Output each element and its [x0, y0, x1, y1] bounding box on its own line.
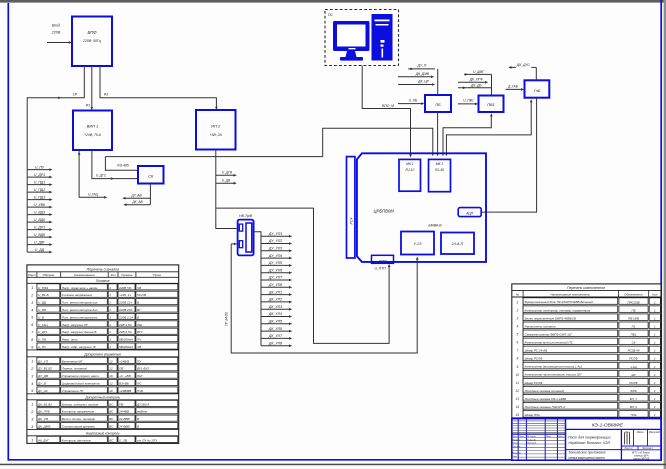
svg-text:Исходные газовая основной: Исходные газовая основной [525, 389, 565, 393]
svg-text:U_ВДб: U_ВДб [34, 233, 46, 237]
svg-text:ПВ: ПВ [119, 367, 123, 371]
net ДУ_УП4 output [261, 254, 292, 260]
table row: signal U_ПФ1 [31, 284, 178, 290]
table: signal list (перечень сигналов) [27, 265, 179, 444]
svg-text:1: 1 [31, 286, 33, 290]
table: component list (перечень компонентов) [512, 284, 661, 418]
svg-text:+5В; 2А: +5В; 2А [210, 133, 223, 137]
table row: signal U_ДГ1 [31, 328, 178, 334]
svg-text:Обозначение: Обозначение [624, 293, 643, 297]
svg-text:ДК_УП6: ДК_УП6 [268, 327, 282, 331]
table row: component 14 [516, 403, 661, 410]
svg-text:32Г: 32Г [631, 373, 636, 377]
svg-text:Перекл. основной: Перекл. основной [62, 367, 88, 371]
svg-text:от ПУ до 1ПУ: от ПУ до 1ПУ [137, 438, 158, 442]
svg-text:2: 2 [516, 308, 519, 312]
svg-text:ПчВ: ПчВ [137, 389, 143, 393]
svg-text:Уровень: Уровень [121, 273, 133, 277]
svg-text:ПВ1: ПВ1 [631, 333, 637, 337]
svg-text:5: 5 [517, 333, 519, 337]
block BPF (mains filter) 220V 50Hz [72, 17, 112, 67]
svg-text:ДУ_АВ: ДУ_АВ [130, 193, 142, 197]
svg-text:Техническое приложение: Техническое приложение [568, 451, 606, 455]
svg-text:ДУ1В2/3: ДУ1В2/3 [136, 402, 149, 406]
svg-text:Дискретное управление: Дискретное управление [83, 352, 121, 356]
input 220V arrow [47, 24, 72, 44]
svg-text:ДУ_УП8: ДУ_УП8 [268, 283, 282, 287]
svg-text:Шкаф РС 24-АВ: Шкаф РС 24-АВ [525, 349, 548, 353]
table row: component 7 [517, 346, 661, 353]
net ДК_УП3 output [261, 305, 292, 311]
svg-text:Павлов И.: Павлов И. [527, 443, 537, 445]
table row: component 12 [516, 386, 661, 393]
svg-text:ДК_ЦР: ДК_ЦР [417, 80, 429, 84]
table row: signal U_В [31, 313, 178, 319]
svg-text:Контроллер вычислительный ПС: Контроллер вычислительный ПС [525, 341, 574, 345]
svg-text:3: 3 [31, 374, 33, 378]
table row: component 1 [517, 298, 661, 305]
svg-text:220В 12ч: 220В 12ч [118, 301, 132, 305]
svg-text:Контроллер двигающегося насоса: Контроллер двигающегося насоса 1 АЦ [525, 365, 583, 369]
svg-text:U_ПБ: U_ПБ [38, 338, 46, 342]
svg-text:U_ВД0: U_ВД0 [34, 218, 45, 222]
svg-text:ДК_В1.В2: ДК_В1.В2 [37, 402, 52, 406]
table row: signal U_ВП [31, 306, 178, 312]
connector MK1 RJ-12 [399, 159, 421, 191]
svg-text:Перечень сигналов: Перечень сигналов [87, 267, 120, 271]
svg-text:РСЛФ: РСЛФ [629, 357, 638, 361]
table row: signal U_ГАЦ [31, 321, 178, 327]
wire RS-485 bus from SK area to MK2 [105, 156, 322, 158]
svg-text:Включение МГ: Включение МГ [62, 359, 83, 363]
table section: дискретное управление [27, 349, 179, 351]
svg-text:№ докум.: № докум. [527, 435, 537, 438]
block VIP1 +24V 75A [73, 111, 112, 151]
svg-text:U_ПВ1: U_ПВ1 [463, 99, 474, 103]
svg-text:Ф1: Ф1 [86, 104, 91, 108]
net U_PB arrow [398, 98, 424, 105]
svg-text:U_В1.В: U_В1.В [38, 293, 49, 297]
svg-text:Лит.: Лит. [624, 432, 631, 434]
net U_ДД output arrow [27, 248, 52, 254]
net U_ДР1 output arrow [27, 173, 52, 179]
svg-text:1Ф: 1Ф [73, 93, 78, 97]
svg-text:ДУ_В: ДУ_В [37, 382, 46, 386]
svg-text:схема замещения масел: схема замещения масел [568, 456, 605, 460]
svg-text:СК: СК [148, 174, 154, 178]
connector MK2 RJ-45 [429, 159, 451, 191]
svg-text:У-23: У-23 [414, 242, 423, 246]
svg-text:12: 12 [109, 367, 113, 371]
svg-text:5В/200мА: 5В/200мА [119, 338, 133, 342]
module 24-A-P [441, 233, 474, 255]
block SK [138, 166, 164, 184]
svg-text:U_ДГВ: U_ДГВ [222, 171, 233, 175]
svg-text:1 АЦ: 1 АЦ [630, 365, 637, 369]
svg-text:Контроль датчиков: Контроль датчиков [62, 438, 91, 442]
svg-text:+24В/ВВ: +24В/ВВ [119, 389, 131, 393]
svg-text:Пит. вентиляторов рез.: Пит. вентиляторов рез. [62, 315, 98, 319]
svg-text:Функциональный блок ПК-220/РУС: Функциональный блок ПК-220/РУСЕВВ-Вольны… [525, 300, 594, 304]
svg-text:1: 1 [31, 403, 33, 407]
svg-text:Вход: Вход [52, 24, 60, 28]
block PV1 [479, 96, 504, 113]
svg-text:ВГТУ и В Технол.: ВГТУ и В Технол. [632, 453, 651, 455]
svg-text:П1: П1 [632, 324, 636, 328]
svg-text:4: 4 [31, 308, 33, 312]
net ДУ_УП6 output [261, 268, 292, 274]
svg-text:ДК_АВ: ДК_АВ [131, 200, 143, 204]
table row: signal ДК_В1.В2 [31, 400, 178, 406]
svg-text:ДК_ДУС: ДК_ДУС [516, 63, 531, 67]
svg-text:БМВА-В: БМВА-В [428, 223, 442, 227]
svg-text:U_ГАЦ: U_ГАЦ [38, 323, 48, 327]
svg-text:ДУ_АС: ДУ_АС [37, 389, 49, 393]
net U_DV arrow [216, 179, 237, 185]
svg-text:3: 3 [517, 316, 519, 320]
svg-text:U_ПД3: U_ПД3 [34, 195, 45, 199]
table row: signal ДУ_В [31, 380, 178, 386]
connector NV-Tr/V symbol [238, 220, 254, 256]
svg-text:U_ДВ: U_ДВ [222, 179, 231, 183]
svg-text:ВПО_М: ВПО_М [382, 104, 394, 108]
drawing frame right blue line [660, 0, 662, 461]
table row: component 9 [517, 362, 661, 369]
computer icon stand [346, 51, 357, 57]
svg-text:8: 8 [31, 338, 33, 342]
svg-text:1: 1 [517, 300, 519, 304]
svg-text:Д_ГАБ: Д_ГАБ [507, 84, 518, 88]
net U_ДП1 output arrow [27, 225, 52, 231]
svg-text:ДУТП: ДУТП [377, 259, 387, 263]
svg-text:Лист: Лист [518, 436, 525, 438]
svg-text:В: В [137, 301, 139, 305]
svg-text:ГчБ: ГчБ [534, 89, 541, 93]
wire F1 from BPF to VIP1 [91, 66, 93, 109]
wire GchB to ADC [481, 98, 536, 212]
table row: signal ДУ_В1.В2 [30, 365, 178, 371]
svg-text:220В 2,1А: 220В 2,1А [118, 315, 133, 319]
svg-text:ДК_ДМВ: ДК_ДМВ [37, 425, 50, 429]
block GchB [525, 80, 550, 97]
table row: signal U_ПУ [31, 343, 178, 349]
svg-text:4: 4 [31, 382, 33, 386]
svg-text:Дискретный контроль: Дискретный контроль [84, 395, 120, 399]
svg-text:U_ПД2: U_ПД2 [34, 188, 45, 192]
net ДК_УП7 output [261, 334, 292, 340]
svg-text:ДК_УП5: ДК_УП5 [268, 320, 282, 324]
table row: component 4 [517, 322, 661, 329]
svg-text:Дата: Дата [557, 436, 564, 438]
svg-text:ПВ1: ПВ1 [487, 103, 494, 107]
svg-text:1: 1 [109, 330, 111, 334]
table row: signal ДК_ДМВ [31, 423, 178, 429]
svg-text:ВГ: ВГ [137, 308, 141, 312]
connector strip PC4 [347, 157, 355, 258]
wire U_GAC from VIP1 [78, 150, 108, 199]
svg-text:Обознач.: Обознач. [43, 273, 56, 277]
table row: signal ДУ_УП [31, 357, 178, 363]
svg-text:мкВтм: мкВтм [137, 410, 148, 414]
svg-text:6: 6 [31, 323, 33, 327]
svg-text:Пит. вентиляторов доп.: Пит. вентиляторов доп. [62, 308, 99, 312]
svg-text:U_ПУ: U_ПУ [38, 345, 47, 349]
table row: signal ДК_УМ [31, 415, 178, 421]
table row: signal ДУ_ДВ [31, 372, 178, 378]
svg-text:U_ВД: U_ВД [38, 301, 47, 305]
svg-text:В: В [137, 315, 139, 319]
wire from IP2 node to DUTP (long path) [216, 208, 389, 343]
net U_ВД3 output arrow [27, 210, 52, 216]
svg-text:ДК_УП8: ДК_УП8 [268, 341, 282, 345]
table row: component 3 [517, 314, 661, 321]
svg-text:Самореализатор ФВГФ СМП-12Г: Самореализатор ФВГФ СМП-12Г [525, 332, 573, 336]
table row: component 13 [516, 395, 661, 402]
net U_ПД3 output arrow [27, 195, 52, 201]
svg-text:U_ГАЦ: U_ГАЦ [88, 193, 99, 197]
svg-text:5В/200мА: 5В/200мА [119, 345, 133, 349]
svg-text:ДК_ПГФ: ДК_ПГФ [37, 410, 51, 414]
svg-text:220В: 220В [51, 31, 61, 35]
svg-text:16: 16 [109, 389, 113, 393]
table row: component 6 [517, 338, 661, 345]
svg-text:4: 4 [517, 324, 519, 328]
svg-text:U_ДГС: U_ДГС [96, 174, 107, 178]
svg-text:БЛФ: БЛФ [630, 389, 637, 393]
table row: signal U_ПБ [31, 336, 178, 342]
svg-text:Силовое напряжение: Силовое напряжение [62, 293, 93, 297]
table row: component 11 [516, 378, 661, 385]
svg-text:ДК_УП3: ДК_УП3 [268, 305, 282, 309]
svg-text:БПФ: БПФ [87, 30, 97, 35]
svg-text:RJ-45: RJ-45 [435, 168, 444, 172]
table row: component 8 [517, 354, 661, 361]
table row: signal АК_ВУГ [31, 436, 178, 442]
svg-text:ДК_ДБ: ДК_ДБ [470, 84, 482, 88]
svg-text:U_ПУ: U_ПУ [35, 165, 45, 169]
svg-text:2: 2 [30, 367, 33, 371]
svg-text:U_ДГ1: U_ДГ1 [38, 330, 48, 334]
table row: signal U_ВД [31, 299, 178, 305]
svg-text:24-ВВВ: 24-ВВВ [118, 417, 130, 421]
svg-text:7: 7 [517, 349, 519, 353]
net U_ПД1 output arrow [27, 180, 52, 186]
svg-text:Ф2: Ф2 [104, 93, 109, 97]
right window border strip [664, 0, 666, 469]
svg-text:1: 1 [109, 308, 111, 312]
svg-text:ДК_ПГФ: ДК_ПГФ [469, 78, 483, 82]
table row: component 10 [516, 370, 661, 377]
svg-text:15: 15 [516, 413, 520, 417]
svg-text:8: 8 [517, 357, 519, 361]
drawing frame left blue line [7, 3, 9, 461]
svg-text:ДУ_УП6: ДУ_УП6 [268, 268, 282, 272]
svg-text:Напр. цепи: Напр. цепи [62, 338, 78, 342]
top window border band [0, 0, 666, 2]
svg-text:12: 12 [109, 382, 113, 386]
wire GchB to MK2 [446, 100, 531, 154]
svg-text:1: 1 [109, 323, 111, 327]
svg-text:9: 9 [517, 365, 519, 369]
net ДК_УП8 output [261, 341, 292, 347]
net D_GAB arrow [506, 84, 525, 90]
svg-text:ПС: ПС [328, 13, 333, 17]
wire PB to MK2 [437, 112, 439, 154]
svg-text:24/4ВВ: 24/4ВВ [118, 410, 129, 414]
svg-text:ВЛ_2: ВЛ_2 [630, 405, 637, 409]
svg-text:+24В/В: +24В/В [119, 359, 129, 363]
svg-text:ДУ_УП1: ДУ_УП1 [268, 232, 282, 236]
svg-text:Управление перекл. вент.: Управление перекл. вент. [62, 374, 100, 378]
svg-text:Листов 1: Листов 1 [641, 447, 653, 450]
bottom window border line [0, 464, 666, 466]
svg-text:РС4: РС4 [349, 218, 353, 225]
svg-text:В3+ВВ: В3+ВВ [119, 382, 129, 386]
svg-text:11: 11 [516, 381, 520, 385]
table row: signal U_В1.В [30, 291, 178, 297]
svg-text:1: 1 [109, 293, 111, 297]
svg-text:Прим.: Прим. [153, 273, 162, 277]
svg-text:RS-485: RS-485 [117, 163, 129, 167]
wire N from BPF to left distribution bus [27, 66, 84, 252]
wire RS-485 drop into SK [105, 157, 137, 171]
svg-text:ПЛа: ПЛа [631, 413, 637, 417]
svg-text:Наименование: Наименование [74, 273, 95, 277]
svg-text:U_ДР1: U_ДР1 [34, 173, 45, 177]
net U_PV1 arrow [458, 99, 478, 106]
svg-text:Утв.: Утв. [513, 456, 518, 458]
net U_УВК output arrow [27, 203, 52, 209]
svg-text:Шкаф ПЛа: Шкаф ПЛа [525, 413, 540, 417]
net U_ПД2 output arrow [27, 188, 52, 194]
net ДК_УП6 output [261, 327, 292, 333]
net ДУ_УП3 output [261, 247, 292, 253]
svg-text:ЧВ: ЧВ [137, 345, 141, 349]
svg-text:U_ВП: U_ВП [38, 308, 47, 312]
net ДУ_УП2 output [261, 239, 292, 245]
svg-text:1: 1 [109, 345, 111, 349]
svg-text:Масса: Масса [637, 432, 645, 434]
svg-text:1: 1 [31, 360, 33, 364]
svg-text:~220, 1ч: ~220, 1ч [119, 293, 131, 297]
svg-text:Шкаф РСЛФ: Шкаф РСЛФ [525, 381, 543, 385]
svg-text:ПБ: ПБ [632, 308, 636, 312]
svg-text:1: 1 [109, 301, 111, 305]
svg-text:СК: СК [632, 341, 636, 345]
svg-text:РСЛФ: РСЛФ [629, 381, 638, 385]
svg-text:ДК_УП1: ДК_УП1 [268, 290, 282, 294]
svg-text:9: 9 [31, 345, 33, 349]
drawing frame bottom blue line [8, 459, 661, 461]
svg-text:5: 5 [31, 389, 33, 393]
svg-text:Шкаф РСЛФ: Шкаф РСЛФ [525, 357, 543, 361]
svg-text:24-ВВВ: 24-ВВВ [118, 425, 130, 429]
svg-text:Напр. первичное + вводн.: Напр. первичное + вводн. [62, 286, 99, 290]
svg-text:U_ПБ: U_ПБ [409, 98, 419, 102]
svg-text:Накопители питания: Накопители питания [525, 324, 556, 328]
svg-text:ДУ_УП3: ДУ_УП3 [268, 247, 282, 251]
svg-text:ДУ_УП: ДУ_УП [37, 359, 49, 363]
table column separators (component list) [522, 290, 524, 418]
svg-text:Н.контр.: Н.контр. [513, 453, 522, 455]
svg-text:10: 10 [516, 373, 520, 377]
svg-text:+С..+ВВ: +С..+ВВ [119, 374, 131, 378]
wire VPO_M from PS to MK1 [362, 66, 410, 156]
block main controller board outline [357, 153, 486, 262]
table row: component 5 [517, 330, 661, 337]
svg-text:Напр. избр. нагрузки, Ф: Напр. избр. нагрузки, Ф [62, 345, 96, 349]
svg-text:Сигнализация времени: Сигнализация времени [62, 425, 96, 429]
computer icon tower [372, 14, 393, 61]
svg-text:12: 12 [109, 359, 113, 363]
svg-text:В: В [137, 425, 139, 429]
svg-text:Контроллер электроф. интерф. п: Контроллер электроф. интерф. параметров [525, 308, 591, 312]
svg-text:Напр. нагрузки ПГ: Напр. нагрузки ПГ [62, 323, 89, 327]
svg-text:группа ЧЕП-09: группа ЧЕП-09 [633, 459, 650, 461]
svg-text:1: 1 [109, 338, 111, 342]
svg-text:Блоки переключения SMPS-485В/1: Блоки переключения SMPS-485В/1В [525, 316, 576, 320]
svg-text:Кол: Кол [652, 293, 657, 297]
svg-text:3: 3 [31, 301, 33, 305]
svg-text:U_ДП1: U_ДП1 [34, 225, 45, 229]
svg-text:ДК_УМ: ДК_УМ [37, 417, 49, 421]
net U_DGV arrow [216, 171, 237, 177]
svg-text:ДУ_ДВ: ДУ_ДВ [37, 374, 48, 378]
net ДУ_УП8 output [261, 283, 292, 289]
module DUTP [372, 255, 394, 263]
table row: component 2 [516, 306, 661, 313]
svg-text:В: В [137, 417, 139, 421]
svg-text:1: 1 [31, 439, 33, 443]
net U_ВДб output arrow [27, 233, 52, 239]
svg-text:Конт: Конт [28, 273, 36, 277]
module U-23 [401, 232, 434, 255]
svg-text:Кол: Кол [111, 273, 116, 277]
svg-text:ДК_УП2: ДК_УП2 [268, 298, 282, 302]
svg-text:МК 1: МК 1 [406, 162, 414, 166]
svg-text:1: 1 [109, 315, 111, 319]
net U_ПУ output arrow [27, 165, 52, 171]
net U_ДВГ output arrow [27, 240, 52, 246]
svg-text:Масштаб: Масштаб [649, 432, 660, 434]
svg-text:24-А-П: 24-А-П [451, 242, 464, 246]
svg-text:220В 5%: 220В 5% [118, 286, 132, 290]
svg-text:Исходные газовая СБ-1 2АВБ: Исходные газовая СБ-1 2АВБ [525, 397, 567, 401]
svg-text:ПВ-1б/В: ПВ-1б/В [628, 316, 639, 320]
svg-text:14: 14 [516, 405, 520, 409]
title block (основная надпись) [512, 419, 661, 461]
svg-text:U_ПТП: U_ПТП [374, 267, 386, 271]
wire control inputs to PB [437, 69, 439, 95]
svg-text:РС2В-4б: РС2В-4б [628, 349, 640, 353]
svg-text:1: 1 [109, 286, 111, 290]
block PB [425, 95, 451, 112]
svg-text:ИП 2: ИП 2 [211, 124, 221, 129]
svg-text:Рыбин В.: Рыбин В. [527, 439, 536, 441]
svg-text:3: 3 [31, 417, 33, 421]
svg-text:ПБ: ПБ [435, 103, 441, 107]
svg-text:ЧВ: ЧВ [137, 286, 141, 290]
wire U_DGS from VIP1 to SK [92, 150, 138, 180]
svg-text:Вход к потен. интерф.: Вход к потен. интерф. [62, 417, 96, 421]
table row: signal ДУ_АС [31, 387, 178, 393]
svg-text:Напр. нагрузки днища В: Напр. нагрузки днища В [62, 330, 97, 334]
svg-text:Питание: Питание [96, 279, 110, 283]
svg-text:6: 6 [517, 341, 519, 345]
svg-text:U_ДД: U_ДД [35, 248, 45, 252]
wire F2 from BPF to IP2 [100, 66, 216, 108]
svg-text:50+5В: 50+5В [137, 293, 146, 297]
